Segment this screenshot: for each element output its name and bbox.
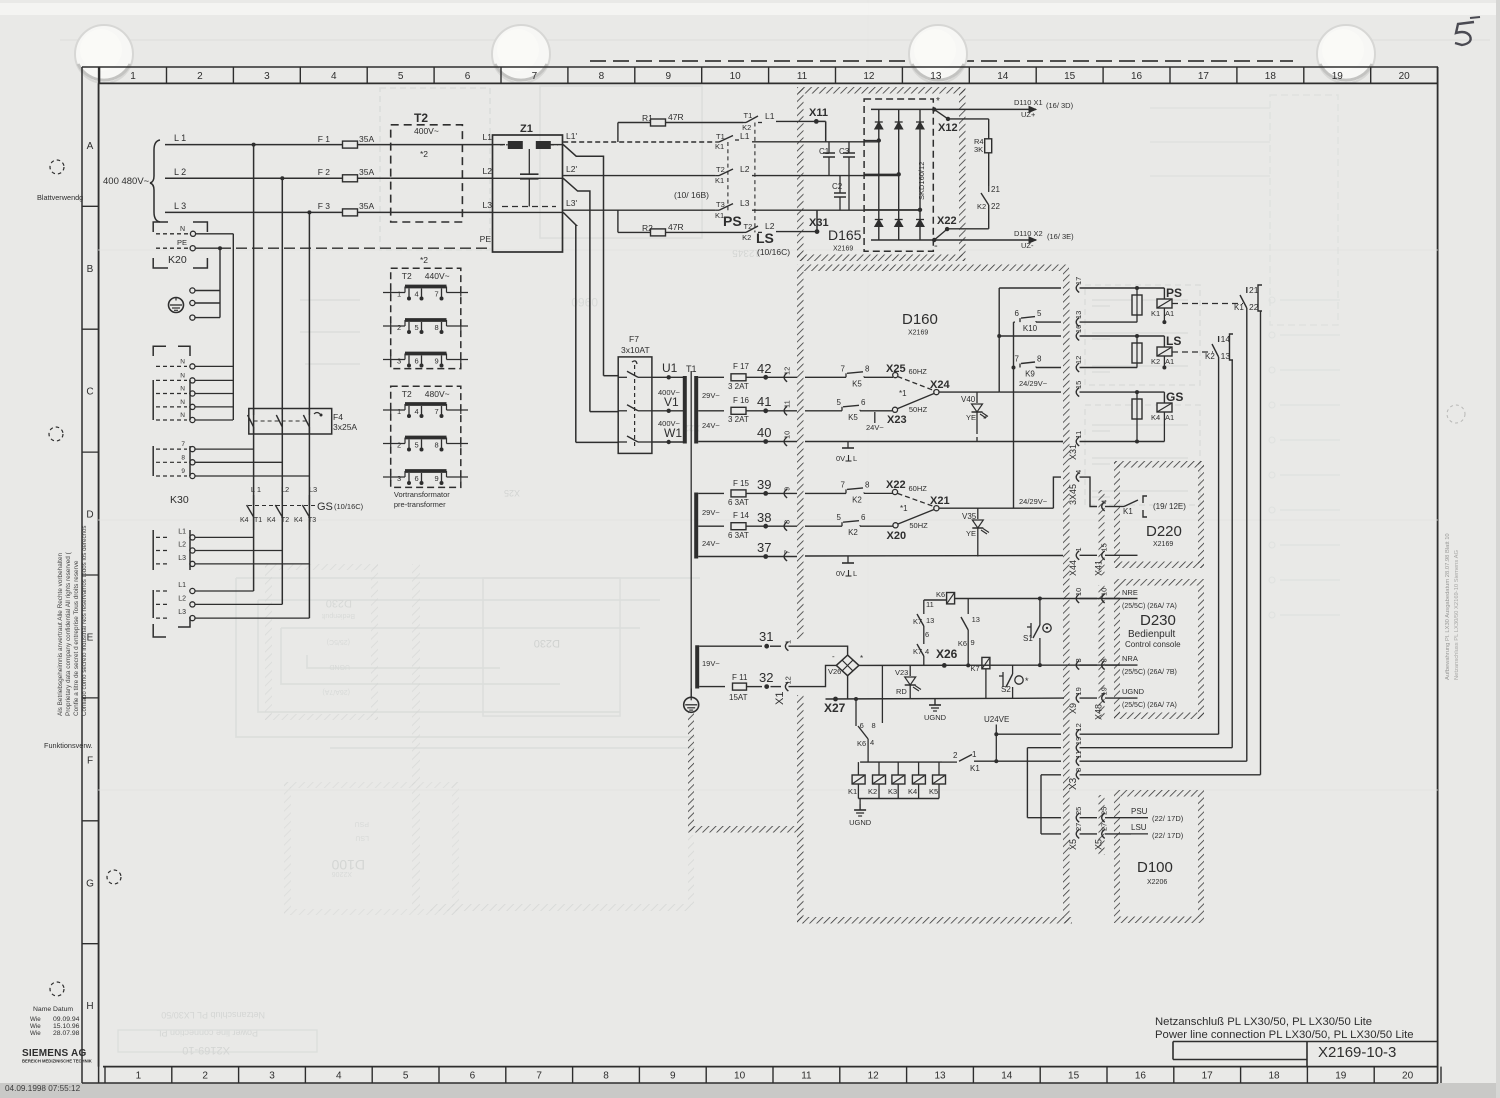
440V windings	[405, 285, 447, 289]
svg-text:X44: X44	[1068, 560, 1078, 576]
svg-text:F 15: F 15	[733, 479, 750, 488]
wire 31	[699, 645, 762, 647]
rectifier V26 diamond	[836, 655, 859, 676]
D220 hatched border top	[1114, 461, 1204, 468]
svg-text:3: 3	[269, 1071, 275, 1082]
svg-text:39: 39	[757, 477, 771, 492]
svg-text:K4: K4	[240, 517, 249, 524]
svg-text:L3: L3	[178, 555, 186, 562]
svg-text:D220: D220	[1146, 523, 1182, 540]
svg-text:8: 8	[872, 721, 876, 730]
contact K2 5-6 wire38	[841, 522, 843, 526]
svg-text:440V~: 440V~	[425, 271, 450, 281]
svg-text:27: 27	[1074, 823, 1083, 831]
svg-text:10: 10	[730, 71, 742, 82]
V35 LED	[977, 508, 979, 519]
svg-text:D160: D160	[902, 311, 938, 328]
svg-text:(22/ 17D): (22/ 17D)	[1152, 831, 1184, 840]
svg-text:1: 1	[397, 407, 401, 416]
K30 bracket	[153, 346, 166, 356]
svg-text:L3: L3	[740, 198, 750, 208]
svg-text:F: F	[87, 755, 93, 766]
svg-text:4: 4	[415, 407, 419, 416]
svg-text:7: 7	[1015, 355, 1020, 364]
X22 bridge switch	[947, 228, 989, 230]
svg-text:K6: K6	[857, 739, 866, 748]
svg-text:24V~: 24V~	[702, 421, 720, 430]
svg-text:37: 37	[757, 540, 771, 555]
svg-text:42: 42	[757, 361, 771, 376]
svg-text:29V~: 29V~	[702, 508, 720, 517]
punch hole 1	[75, 25, 133, 83]
svg-text:10: 10	[1100, 588, 1109, 596]
svg-text:L1': L1'	[566, 131, 577, 141]
svg-text:N: N	[180, 226, 185, 233]
svg-text:7: 7	[841, 364, 846, 373]
wire 38	[698, 525, 724, 527]
svg-text:13: 13	[1074, 311, 1083, 319]
svg-text:3x25A: 3x25A	[333, 422, 357, 432]
frame top ruler line	[82, 66, 1438, 68]
svg-text:Netzanschlub PL LX30/50: Netzanschlub PL LX30/50	[161, 1010, 265, 1020]
svg-text:(25/5C) (26A/ 7A): (25/5C) (26A/ 7A)	[1122, 603, 1177, 610]
svg-text:UGND: UGND	[849, 818, 872, 827]
X48 strip hatch	[1099, 585, 1105, 719]
svg-text:8: 8	[435, 441, 439, 450]
svg-text:Funktionsverw.: Funktionsverw.	[44, 741, 93, 750]
bridge internal buses	[871, 108, 934, 110]
svg-text:U1: U1	[662, 361, 678, 375]
svg-text:8: 8	[181, 454, 185, 461]
svg-text:K1: K1	[1151, 309, 1160, 318]
T1 19V winding bar	[695, 645, 699, 688]
svg-text:PS: PS	[1166, 286, 1182, 300]
svg-text:35A: 35A	[359, 201, 374, 211]
svg-text:C2: C2	[832, 182, 843, 191]
frame bottom outer line	[82, 1082, 1438, 1084]
svg-text:24V~: 24V~	[866, 423, 884, 432]
svg-text:12: 12	[868, 1071, 880, 1082]
svg-text:Datum: Datum	[53, 1006, 73, 1013]
svg-text:D165: D165	[828, 227, 862, 243]
svg-text:D: D	[86, 510, 93, 521]
svg-text:K4: K4	[908, 787, 917, 796]
svg-text:L2': L2'	[566, 164, 577, 174]
svg-text:400V~: 400V~	[414, 126, 439, 136]
svg-text:Bedienpult: Bedienpult	[1128, 629, 1175, 640]
svg-text:N: N	[180, 399, 185, 406]
svg-text:X20: X20	[887, 530, 907, 542]
K1 2-1 contact row	[942, 761, 957, 763]
drawing border top	[99, 82, 1438, 84]
row pin 11 K1 net	[1076, 757, 1079, 766]
svg-text:X2169-10-3: X2169-10-3	[1318, 1044, 1396, 1061]
svg-text:6: 6	[470, 1071, 476, 1082]
svg-text:3: 3	[1074, 658, 1083, 662]
D165 hatched border right	[959, 87, 966, 261]
X1 connector pin 8 wire38	[784, 522, 787, 531]
handwritten 5 top right	[1455, 22, 1474, 45]
earth connections row	[190, 288, 195, 293]
node X27	[826, 664, 837, 666]
row pin13 wire K10	[1014, 321, 1016, 323]
svg-text:D110 X2: D110 X2	[1014, 229, 1043, 238]
svg-text:3 2AT: 3 2AT	[728, 382, 749, 391]
svg-text:Bedienpult: Bedienpult	[322, 612, 355, 619]
svg-text:D110 X1: D110 X1	[1014, 98, 1043, 107]
node X24	[934, 390, 939, 395]
svg-text:2: 2	[197, 71, 203, 82]
contact K5 5-6 wire41	[841, 407, 843, 411]
svg-text:X27: X27	[824, 701, 846, 715]
svg-text:K5: K5	[848, 413, 858, 422]
svg-text:V26: V26	[828, 667, 841, 676]
svg-text:Confie a titre de secret d en: Confie a titre de secret d entreprise To…	[73, 560, 80, 716]
svg-text:1: 1	[972, 750, 977, 759]
X5 strip hatch	[1099, 795, 1105, 855]
svg-text:X5: X5	[1068, 839, 1078, 850]
svg-text:K2: K2	[977, 202, 986, 211]
svg-text:28.07.98: 28.07.98	[53, 1030, 80, 1037]
phase tap verticals	[253, 145, 255, 591]
svg-text:2: 2	[202, 1071, 208, 1082]
svg-text:Wie: Wie	[30, 1016, 41, 1023]
pretransformer 480V box	[391, 386, 461, 487]
svg-text:SKD160/12: SKD160/12	[917, 162, 926, 200]
D160 hatched border bottom	[797, 917, 1072, 924]
svg-text:K4: K4	[267, 517, 276, 524]
svg-text:X22: X22	[937, 215, 957, 227]
svg-text:Vortransformator: Vortransformator	[394, 490, 450, 499]
svg-text:N: N	[180, 412, 185, 419]
svg-text:D230: D230	[1140, 612, 1176, 629]
svg-text:X3: X3	[1068, 777, 1079, 790]
K1 contact verticals down	[1246, 308, 1248, 761]
wire 42	[698, 376, 724, 378]
T1 primary wires	[652, 376, 683, 378]
D230 hatched border top	[1114, 579, 1204, 586]
X41 strip hatch upper	[1099, 490, 1105, 575]
svg-text:5: 5	[1037, 309, 1042, 318]
frame letter column line	[98, 67, 100, 1083]
svg-text:5: 5	[415, 441, 419, 450]
bridge diodes bottom row	[875, 220, 883, 227]
svg-text:12345: 12345	[732, 247, 760, 258]
svg-text:X2169: X2169	[833, 246, 853, 253]
svg-text:D100: D100	[1137, 859, 1173, 876]
K1 K2 mechanical dashed links	[727, 142, 729, 210]
registration dashed circles	[50, 160, 64, 174]
svg-text:8: 8	[783, 520, 792, 524]
D230 hatched border bottom	[1114, 713, 1204, 720]
svg-text:21: 21	[1249, 285, 1259, 295]
svg-text:(25/5C): (25/5C)	[327, 638, 350, 645]
svg-text:V35: V35	[962, 512, 977, 521]
svg-text:L 1: L 1	[174, 133, 186, 143]
svg-text:F 1: F 1	[318, 134, 331, 144]
D165 hatched border left	[797, 87, 804, 261]
svg-text:18: 18	[1265, 71, 1277, 82]
svg-text:*: *	[1025, 676, 1029, 686]
svg-text:X21: X21	[930, 495, 950, 507]
svg-text:9: 9	[665, 71, 671, 82]
svg-text:T2: T2	[402, 389, 412, 399]
svg-text:27: 27	[1100, 823, 1109, 831]
svg-text:13: 13	[934, 1071, 946, 1082]
svg-text:17: 17	[1198, 71, 1210, 82]
row NRA	[1076, 661, 1079, 670]
svg-text:L3: L3	[483, 200, 493, 210]
X1 connector pin 9 wire39	[784, 489, 787, 498]
svg-text:D230: D230	[326, 597, 352, 609]
svg-text:W1: W1	[664, 426, 682, 440]
T1 secondary bar 2	[694, 493, 698, 559]
bridge dashed box	[864, 99, 933, 251]
contact K5 7-8 wire42	[845, 373, 847, 377]
svg-text:K30: K30	[170, 494, 189, 506]
svg-text:Netzanschluß PL LX30/50, PL LX: Netzanschluß PL LX30/50, PL LX30/50 Lite	[1155, 1016, 1372, 1028]
row PSU	[1076, 813, 1079, 822]
svg-text:X11: X11	[809, 107, 828, 119]
svg-text:1: 1	[136, 1071, 142, 1082]
svg-text:K1: K1	[970, 764, 980, 773]
bleedthrough ghosts	[688, 835, 694, 905]
X3 connector strip hatched right border	[1063, 271, 1070, 923]
svg-text:14: 14	[997, 71, 1009, 82]
svg-text:X2206: X2206	[1147, 879, 1167, 886]
drawing border left	[98, 83, 100, 1066]
svg-text:13: 13	[972, 615, 980, 624]
svg-text:11: 11	[801, 1071, 812, 1082]
svg-text:*: *	[936, 96, 940, 107]
svg-text:T1: T1	[254, 517, 262, 524]
svg-text:*1: *1	[899, 389, 907, 398]
svg-text:K1: K1	[1234, 303, 1244, 312]
row pin 8	[1076, 770, 1079, 779]
svg-text:V40: V40	[961, 395, 976, 404]
node X26	[942, 663, 947, 668]
svg-text:5: 5	[837, 513, 842, 522]
svg-text:N: N	[180, 358, 185, 365]
UZ+ output wire	[934, 108, 1036, 110]
svg-text:X41: X41	[1094, 560, 1104, 576]
X1 connector pin 10 wire40	[784, 437, 787, 446]
svg-text:7: 7	[435, 290, 439, 299]
svg-text:GS: GS	[1166, 390, 1183, 404]
vertical link to LSU	[1040, 775, 1042, 834]
svg-text:K3: K3	[888, 787, 897, 796]
D160 hatched border left upper	[797, 271, 804, 639]
svg-text:L2: L2	[178, 542, 186, 549]
svg-text:K9: K9	[1025, 370, 1035, 379]
svg-text:11: 11	[1074, 751, 1083, 759]
T1 core line	[690, 371, 692, 697]
svg-text:7: 7	[532, 71, 538, 82]
svg-text:19: 19	[1335, 1071, 1347, 1082]
svg-text:K6: K6	[958, 639, 967, 648]
svg-text:19: 19	[1332, 71, 1344, 82]
svg-text:Control console: Control console	[1125, 640, 1181, 649]
svg-text:9: 9	[435, 357, 439, 366]
svg-text:20: 20	[1399, 71, 1411, 82]
svg-text:15: 15	[1064, 71, 1076, 82]
UZ- output wire	[934, 239, 1036, 241]
svg-text:9: 9	[783, 487, 792, 491]
svg-text:400 480V~: 400 480V~	[103, 176, 150, 187]
svg-text:X9: X9	[1068, 703, 1078, 714]
svg-text:60HZ: 60HZ	[909, 484, 928, 493]
relay LS circuit	[1163, 336, 1165, 346]
svg-text:6: 6	[861, 513, 866, 522]
svg-text:Als Betriebsgeheimnis anvertra: Als Betriebsgeheimnis anvertraut Alle Re…	[57, 553, 64, 716]
svg-text:K7: K7	[971, 664, 980, 673]
bridge input connections	[877, 138, 881, 142]
wire 31 into bridge	[810, 646, 848, 655]
svg-text:38: 38	[757, 510, 771, 525]
T1 primary bar	[683, 376, 687, 444]
svg-text:F 14: F 14	[733, 511, 750, 520]
PE wire to Z1	[195, 247, 220, 249]
svg-text:(16/ 3E): (16/ 3E)	[1047, 232, 1074, 241]
wire 39	[698, 492, 724, 494]
svg-text:C: C	[86, 387, 93, 398]
svg-text:K5: K5	[852, 379, 862, 388]
Z1 wires inside	[493, 144, 506, 146]
svg-text:4: 4	[870, 738, 874, 747]
svg-text:6: 6	[861, 398, 866, 407]
svg-text:15: 15	[1074, 381, 1083, 389]
row LSU	[1076, 829, 1079, 838]
contact K1 into D220	[1120, 506, 1124, 508]
svg-text:8: 8	[1074, 768, 1083, 772]
svg-text:11: 11	[1074, 431, 1083, 439]
drawing border right	[1437, 67, 1439, 1083]
svg-text:8: 8	[435, 323, 439, 332]
LS dashed link to K2 14 13	[1172, 351, 1213, 353]
svg-text:K4: K4	[294, 517, 303, 524]
svg-text:20: 20	[1402, 1071, 1414, 1082]
24V tap tick wire41	[874, 412, 876, 423]
svg-text:Wie: Wie	[30, 1030, 41, 1037]
svg-text:Netzanschluss PL LX30/50 X2169: Netzanschluss PL LX30/50 X2169-10 Siemen…	[1454, 550, 1460, 680]
svg-text:K10: K10	[1023, 324, 1038, 333]
svg-text:25: 25	[1074, 807, 1083, 815]
row pin12 wire K9	[1014, 367, 1016, 369]
X23-X24 blade	[898, 394, 935, 409]
svg-text:L: L	[853, 569, 857, 578]
svg-text:K2: K2	[1151, 357, 1160, 366]
D160 notch hatched vertical at T1	[688, 712, 694, 831]
svg-text:3: 3	[397, 357, 401, 366]
svg-text:L 2: L 2	[174, 167, 186, 177]
top scan streak	[590, 60, 1293, 62]
L-prime wires to contacts	[563, 141, 715, 143]
svg-text:24/29V~: 24/29V~	[1019, 379, 1048, 388]
svg-text:6 3AT: 6 3AT	[728, 498, 749, 507]
svg-text:47R: 47R	[668, 222, 684, 232]
svg-text:Aufbewahrung Pl. LX30 Ausgabe: Aufbewahrung Pl. LX30 Ausgabedatum 28.07…	[1445, 533, 1451, 680]
svg-text:PSU: PSU	[1131, 807, 1148, 816]
svg-text:L2: L2	[483, 166, 493, 176]
svg-text:9: 9	[971, 638, 975, 647]
relay PS circuit	[1163, 288, 1165, 298]
svg-text:11: 11	[926, 600, 934, 609]
svg-text:13: 13	[930, 71, 942, 82]
D100 hatched border right	[1198, 796, 1204, 917]
svg-text:7: 7	[783, 550, 792, 554]
svg-text:16: 16	[1074, 325, 1083, 333]
svg-text:60HZ: 60HZ	[909, 367, 928, 376]
svg-text:X2169: X2169	[1153, 541, 1173, 548]
svg-text:PE: PE	[480, 234, 492, 244]
svg-text:X2206: X2206	[332, 870, 352, 877]
svg-text:22: 22	[1249, 302, 1259, 312]
svg-text:5: 5	[837, 398, 842, 407]
svg-text:5: 5	[403, 1071, 409, 1082]
svg-text:12: 12	[783, 367, 792, 375]
X24 output wire	[939, 391, 999, 393]
svg-text:04.09.1998 07:55:12: 04.09.1998 07:55:12	[5, 1084, 81, 1093]
svg-text:1: 1	[1074, 547, 1083, 551]
svg-text:X31: X31	[1068, 444, 1078, 460]
D230 hatched border right	[1198, 585, 1204, 719]
X1 connector pin 11 wire41	[784, 406, 787, 415]
bridge diodes top row	[875, 122, 883, 129]
svg-text:X12: X12	[938, 122, 958, 134]
svg-text:A: A	[87, 141, 94, 152]
svg-text:(25/5C) (26A/ 7A): (25/5C) (26A/ 7A)	[1122, 702, 1177, 709]
svg-text:X23: X23	[887, 414, 907, 426]
svg-text:LS: LS	[1166, 334, 1181, 348]
switch X22	[892, 489, 897, 494]
svg-text:UGND: UGND	[329, 663, 350, 670]
svg-text:C1: C1	[819, 147, 830, 156]
svg-text:UZ-: UZ-	[1021, 241, 1034, 250]
svg-text:Power line connection PL LX30/: Power line connection PL LX30/50, PL LX3…	[1155, 1029, 1414, 1041]
svg-text:X25: X25	[504, 488, 520, 498]
X1 connector pin 12 wire32	[785, 682, 788, 691]
svg-text:10: 10	[1074, 588, 1083, 596]
svg-text:Confiado como secreto industri: Confiado como secreto industrial Nos res…	[81, 525, 88, 716]
wire 32 fuse F11	[699, 686, 725, 688]
svg-text:47R: 47R	[668, 112, 684, 122]
K6 13-9 branch	[967, 599, 969, 615]
svg-text:F 17: F 17	[733, 362, 750, 371]
svg-text:1: 1	[130, 71, 136, 82]
svg-text:Z1: Z1	[520, 123, 533, 135]
svg-text:L2: L2	[740, 164, 750, 174]
bottom rail X27	[826, 697, 1065, 700]
svg-text:17: 17	[1074, 277, 1083, 285]
svg-text:K6: K6	[936, 590, 945, 599]
X24 dashed blade	[898, 377, 935, 391]
svg-text:9: 9	[435, 474, 439, 483]
svg-text:Name: Name	[33, 1006, 51, 1013]
svg-text:L2: L2	[281, 485, 289, 494]
svg-text:19: 19	[1074, 687, 1083, 695]
D165 hatched border top	[797, 87, 965, 94]
svg-text:X1: X1	[774, 692, 786, 705]
svg-text:4: 4	[1074, 470, 1083, 474]
UGND below V23	[934, 698, 936, 700]
svg-text:YE: YE	[966, 529, 976, 538]
svg-text:K20: K20	[168, 254, 187, 266]
svg-text:F4: F4	[333, 412, 343, 422]
svg-text:A1: A1	[1165, 309, 1174, 318]
svg-text:19: 19	[1100, 687, 1109, 695]
earth symbol	[169, 298, 184, 313]
svg-text:0V: 0V	[836, 569, 845, 578]
